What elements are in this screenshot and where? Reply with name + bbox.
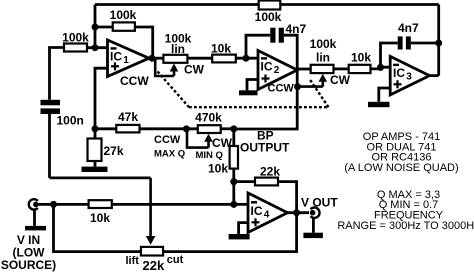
svg-text:IC: IC (110, 50, 122, 64)
potentiometer 100k lin (frequency, section 2) (310, 37, 337, 73)
resistor 10k (input to IC4) (89, 200, 112, 225)
ground (V OUT) (303, 218, 323, 238)
wire: IC1 feedback row (95, 26, 113, 29)
svg-text:IC: IC (261, 60, 273, 74)
svg-text:100k: 100k (310, 37, 337, 51)
svg-text:cut: cut (167, 254, 184, 266)
svg-text:3: 3 (406, 72, 412, 83)
svg-text:100k: 100k (255, 10, 282, 24)
svg-text:100n: 100n (57, 114, 84, 128)
resistor 10k (to IC2) (211, 42, 236, 63)
connector V OUT (phono socket) (301, 196, 338, 218)
svg-text:470k: 470k (195, 111, 222, 125)
wire: right vertical from top rail to IC3 output (437, 5, 440, 76)
potentiometer 100k lin (frequency, section 1) (163, 32, 191, 63)
node: IC2 inverting input dot (243, 55, 250, 62)
svg-text:100k: 100k (110, 8, 137, 22)
svg-text:(A LOW NOISE QUAD): (A LOW NOISE QUAD) (344, 162, 458, 174)
wire: input corner to 100k (50, 48, 65, 100)
node: pot2 wiper to IC2 output dot (294, 83, 301, 90)
resistor 27k (88, 129, 124, 161)
potentiometer 22k (lift/cut) (126, 247, 184, 273)
wire: top feedback rail (95, 3, 439, 6)
svg-text:4n7: 4n7 (286, 22, 307, 36)
svg-text:RANGE = 300Hz TO 3000Hz: RANGE = 300Hz TO 3000Hz (337, 220, 474, 232)
svg-text:4n7: 4n7 (398, 21, 419, 35)
wire: feedback to IC1 output (135, 27, 153, 58)
svg-text:CCW: CCW (120, 74, 149, 88)
wire: IC2 output down to BP row (234, 70, 297, 129)
svg-text:lin: lin (316, 51, 330, 65)
capacitor 100n (41, 100, 84, 128)
svg-text:10k: 10k (351, 51, 371, 65)
ground (IC2 non-inverting input) (239, 80, 258, 96)
wiper of pot2 (298, 73, 351, 87)
svg-text:10k: 10k (208, 162, 228, 176)
svg-text:lift: lift (126, 255, 140, 267)
op-amp IC4 (248, 193, 288, 233)
ground (IC4 non-inverting input) (229, 223, 250, 240)
svg-text:CCW: CCW (268, 83, 295, 95)
svg-text:V OUT: V OUT (301, 196, 338, 210)
svg-text:MIN Q: MIN Q (196, 150, 223, 161)
wire: IC1 output to pot1 (149, 57, 163, 60)
node: BP / 10k top dot (230, 125, 237, 132)
svg-text:22k: 22k (143, 258, 165, 273)
svg-text:4: 4 (264, 210, 270, 221)
wire: Q node to 47k (95, 127, 116, 130)
wire: pot2 to 10k (334, 68, 349, 71)
wire: V IN to 10k (36, 203, 89, 206)
resistor 100k (IC1 feedback) (110, 8, 137, 31)
svg-text:10k: 10k (90, 211, 110, 225)
node: IC1 output dot (149, 55, 156, 62)
wire: IC4 output to V OUT (288, 211, 310, 214)
node: feedback junction dot (92, 24, 99, 31)
wire: feedback node down to IC4 input (232, 182, 235, 205)
label: BP OUTPUT (240, 129, 290, 155)
node: V IN / lift branch dot (50, 201, 57, 208)
note: op-amp types (344, 131, 458, 174)
wire: 22k to output vertical (278, 182, 297, 213)
wiper of 470k (154, 130, 233, 162)
svg-text:22k: 22k (260, 165, 280, 179)
wire: 100k to IC1 inverting input (87, 46, 108, 49)
ground (27k) (82, 161, 108, 172)
wire: bottom rail left to V IN node (54, 204, 141, 251)
resistor 22k (IC4 feedback) (255, 165, 280, 186)
node: output junction dot (293, 209, 300, 216)
wire: dot to 22k (234, 180, 255, 183)
node: IC4 inverting input dot (230, 201, 237, 208)
wiper of 22k lift/cut pot (50, 178, 156, 245)
svg-text:2: 2 (274, 65, 280, 76)
resistor 10k (to IC3) (349, 51, 372, 74)
svg-text:CCW: CCW (154, 134, 181, 146)
resistor 100k (input to IC1) (62, 31, 89, 52)
wire: 10k to IC2 inverting input (236, 57, 258, 60)
node: 22k feedback left dot (230, 178, 237, 185)
ground (V IN) (25, 210, 46, 231)
svg-text:CW: CW (184, 63, 205, 77)
ground (IC3 non-inverting input) (368, 88, 390, 107)
resistor 100k (top rail, IC3 feedback) (255, 1, 282, 25)
wire: IC2 output to pot2 (297, 68, 311, 71)
svg-text:100k: 100k (62, 31, 89, 45)
wire: 470k to BP corner (221, 127, 234, 130)
node: IC3 inverting input dot (377, 64, 384, 71)
dashed gang link between pot1, pot2 wipers (158, 72, 329, 108)
svg-text:CW: CW (330, 73, 351, 87)
wire: IC1 non-inverting input down to Q node (95, 68, 108, 129)
svg-text:lin: lin (171, 42, 185, 56)
connector V IN (phono socket) (1, 199, 56, 272)
node: 470k left dot (183, 125, 190, 132)
wiper of pot1 (155, 59, 204, 77)
wire: pot1 to 10k (187, 57, 212, 60)
wire: 100n bottom to lift/cut wiper row (48, 114, 51, 178)
potentiometer 470k (Q adjust) (195, 111, 222, 134)
resistor 47k (116, 110, 139, 132)
svg-text:27k: 27k (104, 144, 124, 158)
wire: 47k to 470k (140, 127, 198, 130)
wire: 10k to IC4 inverting input (112, 203, 248, 206)
svg-text:10k: 10k (211, 42, 231, 56)
svg-text:OUTPUT: OUTPUT (240, 141, 290, 155)
svg-text:47k: 47k (118, 110, 138, 124)
svg-text:IC: IC (393, 66, 405, 80)
node: IC1 inverting input dot (92, 44, 99, 51)
capacitor 4n7 (IC3 integrator) (381, 21, 439, 67)
op-amp IC3 (390, 56, 429, 95)
note: Q and frequency range (337, 189, 474, 232)
capacitor 4n7 (IC2 integrator) (246, 22, 307, 70)
wire: left vertical top rail to IC1 inverting node (94, 5, 97, 49)
wire: IC3 output to rail (430, 74, 439, 77)
op-amp IC2 (258, 51, 297, 95)
node: 4n7 to output rail dot (435, 40, 442, 47)
resistor 10k (BP to IC4) (208, 129, 238, 182)
op-amp IC1 (108, 40, 150, 88)
wire: 10k to IC3 inverting input (371, 67, 391, 69)
node: Q divider junction dot (92, 125, 99, 132)
wire: output down to bottom rail (163, 213, 297, 252)
svg-text:MAX Q: MAX Q (154, 149, 185, 160)
svg-text:SOURCE): SOURCE) (1, 258, 56, 272)
svg-text:1: 1 (123, 55, 129, 66)
svg-text:IC: IC (251, 204, 263, 218)
